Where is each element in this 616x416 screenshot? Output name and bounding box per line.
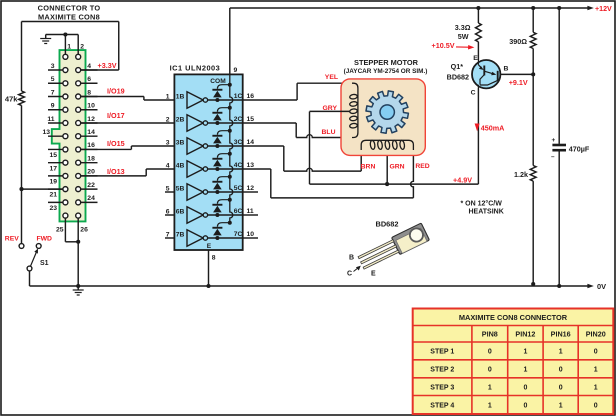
svg-text:25: 25 [56,226,64,233]
inverter driver 1 in IC1 [166,92,243,108]
svg-text:7: 7 [51,89,55,96]
svg-text:6C: 6C [234,208,243,215]
svg-text:3.3Ω: 3.3Ω [455,23,471,32]
svg-text:BD682: BD682 [376,220,399,229]
label BRN [361,164,376,171]
svg-text:9: 9 [51,103,55,110]
svg-text:* ON 12°C/W: * ON 12°C/W [461,200,503,208]
svg-text:MAXIMITE CON8 CONNECTOR: MAXIMITE CON8 CONNECTOR [459,313,568,322]
svg-text:12: 12 [87,116,95,123]
label +10.5V [432,41,475,50]
wire BLU from IC pin15 [243,123,353,138]
wire IC pin 9 COM [210,8,237,85]
svg-text:4: 4 [87,63,91,70]
svg-text:390Ω: 390Ω [509,37,527,46]
svg-text:1: 1 [523,349,527,356]
wire I/O13 pin20 to IC pin4 [81,169,174,176]
svg-text:STEPPER MOTOR: STEPPER MOTOR [354,58,419,67]
connector CON8 body [52,50,86,221]
wire 0V rail [30,282,607,291]
svg-text:PIN8: PIN8 [482,330,498,339]
label stepper motor [344,58,428,75]
svg-text:S1: S1 [40,260,49,267]
svg-text:15: 15 [49,152,57,159]
svg-text:GRN: GRN [389,164,404,171]
svg-text:470µF: 470µF [569,145,590,154]
diode D2 in IC1 [212,106,231,125]
IC1 output pin number 14 [247,139,255,146]
connector right pin stubs [78,70,97,202]
svg-text:B: B [349,255,354,262]
svg-text:PIN20: PIN20 [586,330,606,339]
svg-text:3B: 3B [176,139,185,146]
wire IC input stub pin 7 [165,237,174,239]
svg-text:+: + [552,137,556,144]
stepper motor body [341,79,425,155]
svg-text:1: 1 [559,349,563,356]
table text [430,313,605,409]
svg-text:BD682: BD682 [447,72,469,81]
label heatsink note [461,200,504,216]
diode D6 in IC1 [212,198,231,217]
IC1 output pin number 15 [247,116,255,123]
wire IC input stub pin 5 [165,191,174,193]
wire IC pin 8 E [206,243,215,288]
IC1 output pin number 16 [247,93,255,100]
wire IC output stub pin 12 [243,191,258,193]
resistor 3.3ohm 5W [455,6,482,60]
svg-text:0: 0 [523,402,527,409]
svg-text:6B: 6B [176,208,185,215]
inverter driver 5 in IC1 [166,184,243,200]
label REV [5,236,19,243]
wire IC output stub pin 10 [243,237,258,239]
connector even pin numbers [87,63,95,202]
svg-text:5: 5 [166,185,170,192]
svg-text:HEATSINK: HEATSINK [469,209,504,216]
label GRY [323,105,338,112]
svg-text:10: 10 [247,231,255,238]
svg-text:11: 11 [47,116,54,123]
svg-text:I/O13: I/O13 [107,167,125,176]
svg-text:0V: 0V [597,282,606,291]
svg-text:18: 18 [87,155,95,162]
svg-text:22: 22 [87,182,95,189]
svg-text:1: 1 [559,402,563,409]
connector pin circles [63,54,81,218]
svg-text:24: 24 [87,195,95,202]
label I/O15 [107,139,125,148]
ground at connector top [40,35,51,44]
svg-text:4C: 4C [234,162,243,169]
wire pins 25-26 to 0V [56,218,88,288]
IC1 output pin number 10 [247,231,255,238]
svg-text:I/O15: I/O15 [107,139,125,148]
svg-text:FWD: FWD [36,236,52,243]
svg-text:13: 13 [42,129,50,136]
svg-text:IC1 ULN2003: IC1 ULN2003 [170,64,221,73]
svg-text:B: B [504,66,509,73]
svg-text:Q1*: Q1* [451,62,464,71]
wire pin 21 to 47k line [22,188,63,190]
svg-text:5W: 5W [458,32,469,41]
inductor winding A (vertical coil) [349,83,357,137]
svg-text:19: 19 [49,178,57,185]
svg-text:17: 17 [49,165,57,172]
svg-text:1: 1 [488,402,492,409]
svg-text:STEP 2: STEP 2 [430,366,454,373]
label I/O19 [107,87,125,96]
svg-text:0: 0 [523,384,527,391]
svg-text:1C: 1C [234,93,243,100]
svg-text:10: 10 [87,103,95,110]
wire RED from IC pin13 [243,148,414,198]
wire I/O19 pin8 to IC pin1 [81,96,174,100]
svg-text:14: 14 [87,129,95,136]
svg-text:2: 2 [80,44,84,51]
svg-text:RED: RED [415,163,429,170]
svg-text:1: 1 [594,384,598,391]
svg-text:0: 0 [488,349,492,356]
resistor 47k [5,91,25,105]
svg-text:15: 15 [247,116,255,123]
svg-text:YEL: YEL [325,74,338,81]
diode D7 in IC1 [212,221,231,240]
svg-text:STEP 1: STEP 1 [430,349,454,356]
connector odd pin numbers [42,63,57,212]
op-amp U1 body IC1 ULN2003 [170,64,243,250]
label FWD [36,236,52,243]
svg-text:6: 6 [87,76,91,83]
svg-text:26: 26 [80,226,88,233]
svg-text:1.2k: 1.2k [514,170,528,179]
svg-text:5: 5 [51,76,55,83]
svg-text:16: 16 [87,142,95,149]
svg-text:1: 1 [594,366,598,373]
svg-text:E: E [207,243,212,250]
svg-text:450mA: 450mA [481,124,505,133]
svg-text:47k: 47k [5,95,18,104]
wire I/O15 pin16 to IC pin3 [81,146,174,149]
svg-text:1: 1 [488,384,492,391]
svg-text:C: C [347,270,352,277]
svg-text:MAXIMITE CON8: MAXIMITE CON8 [38,13,100,22]
capacitor 470uF [551,6,590,288]
wire 47k to REV [19,105,23,243]
wire COM rail in IC1 [230,74,233,222]
svg-text:C: C [471,90,476,97]
wire GRN centre tap [386,149,388,184]
wire +4.9V rail [310,88,479,186]
svg-text:0: 0 [559,384,563,391]
svg-text:4: 4 [166,162,170,169]
label BLU [322,129,336,136]
inverter driver 7 in IC1 [166,230,243,246]
label GRN [389,164,404,171]
wire pins 1-2 to ground [46,32,85,54]
svg-text:+4.9V: +4.9V [453,175,472,184]
resistor 390ohm [509,6,536,77]
svg-text:8: 8 [212,255,216,262]
transistor package BD682 pictorial [347,220,430,278]
inverter driver 6 in IC1 [166,207,243,223]
svg-text:7: 7 [166,231,170,238]
svg-text:8: 8 [87,89,91,96]
svg-text:PIN12: PIN12 [515,330,535,339]
svg-text:REV: REV [5,236,19,243]
svg-text:11: 11 [247,208,254,215]
IC1 output pin number 13 [247,162,255,169]
svg-text:1B: 1B [176,93,185,100]
svg-text:0: 0 [594,349,598,356]
svg-text:+12V: +12V [595,5,612,13]
label I/O17 [107,111,125,120]
diode D5 in IC1 [212,175,231,194]
IC1 output pin number 12 [247,185,255,192]
inverter driver 3 in IC1 [166,138,243,154]
svg-text:5C: 5C [234,185,243,192]
svg-text:0: 0 [559,366,563,373]
svg-text:E: E [371,271,376,278]
svg-text:4B: 4B [176,162,185,169]
wire BRN from IC pin14 [243,146,362,171]
svg-text:5B: 5B [176,185,185,192]
label +9.1V [509,78,528,87]
svg-text:12: 12 [247,185,255,192]
transistor Q1 BD682 [447,55,534,97]
svg-text:BRN: BRN [361,164,376,171]
stepper gear [366,91,408,133]
label connector title [38,4,101,22]
wire IC output stub pin 11 [243,214,258,216]
label RED [415,163,429,170]
svg-text:6: 6 [166,208,170,215]
svg-text:3C: 3C [234,139,243,146]
diode D3 in IC1 [212,129,231,148]
svg-text:–: – [551,153,555,160]
inverter driver 2 in IC1 [166,115,243,131]
svg-text:BLU: BLU [322,129,336,136]
diode D1 in IC1 [212,83,231,102]
svg-text:3: 3 [166,139,170,146]
svg-text:E: E [473,55,478,62]
ground at 0V rail [73,286,84,295]
svg-text:16: 16 [247,93,255,100]
svg-text:+9.1V: +9.1V [509,78,528,87]
svg-text:7C: 7C [234,231,243,238]
svg-text:I/O17: I/O17 [107,111,125,120]
wire YEL from IC pin16 [243,83,353,100]
svg-text:1: 1 [523,366,527,373]
IC1 output pin number 11 [247,208,254,215]
svg-text:0: 0 [488,366,492,373]
svg-text:GRY: GRY [323,105,338,112]
svg-text:STEP 4: STEP 4 [430,402,454,409]
svg-text:STEP 3: STEP 3 [430,384,454,391]
inductor winding B (horizontal coil) [361,140,413,150]
wire IC input stub pin 6 [165,214,174,216]
svg-text:+10.5V: +10.5V [432,41,455,50]
switch S1 [19,244,49,271]
table MAXIMITE CON8 CONNECTOR grid [413,309,614,415]
resistor 1.2k [514,74,536,286]
svg-text:1: 1 [67,44,71,51]
svg-text:PIN16: PIN16 [551,330,571,339]
svg-text:2: 2 [166,116,170,123]
wire +3.3V from pin 4 [22,22,119,92]
svg-text:2B: 2B [176,116,185,123]
wire +12V rail [230,5,612,13]
diode D4 in IC1 [212,152,231,171]
svg-text:I/O19: I/O19 [107,87,125,96]
svg-text:(JAYCAR YM-2754 OR SIM.): (JAYCAR YM-2754 OR SIM.) [344,68,428,75]
svg-text:1: 1 [166,93,170,100]
svg-text:21: 21 [49,192,57,199]
inverter driver 4 in IC1 [166,161,243,177]
svg-text:7B: 7B [176,231,185,238]
label 450mA [475,124,505,133]
svg-text:0: 0 [594,402,598,409]
svg-text:20: 20 [87,169,95,176]
svg-text:9: 9 [234,67,238,74]
svg-text:3: 3 [51,63,55,70]
label YEL [325,74,338,81]
svg-text:COM: COM [210,78,226,85]
wire GRY to +4.9V [309,112,311,185]
svg-text:13: 13 [247,162,255,169]
svg-text:23: 23 [49,205,57,212]
svg-text:14: 14 [247,139,255,146]
wire S1 pole to 0V [29,271,31,286]
wire GRY tap [310,110,351,112]
connector left pin stubs [48,70,65,202]
svg-text:CONNECTOR TO: CONNECTOR TO [38,4,101,13]
wire I/O17 pin12 to IC pin2 [81,122,174,124]
label I/O13 [107,167,125,176]
svg-text:2C: 2C [234,116,243,123]
svg-text:+3.3V: +3.3V [98,61,117,70]
